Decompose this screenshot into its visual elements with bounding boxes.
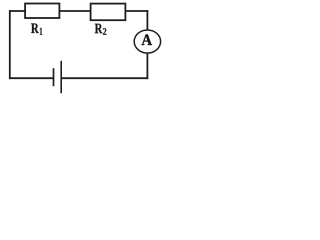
wire: top-left horizontal from left rail to R1	[9, 10, 26, 12]
resistor R2	[91, 4, 126, 21]
ammeter label A	[142, 34, 152, 45]
battery BT1 short plate (negative)	[53, 68, 55, 86]
label R1: subscript 1	[40, 28, 42, 35]
ammeter U1 ellipse	[134, 30, 160, 53]
label R2: subscript 2	[103, 28, 106, 35]
label R1: letter R	[31, 24, 39, 33]
wire: top-right horizontal from R2 to corner	[125, 10, 148, 12]
resistor R1	[25, 4, 59, 19]
wire: bottom-left horizontal from battery short plate to left rail	[9, 77, 54, 79]
wire: right rail vertical from ammeter to bottom corner	[146, 53, 148, 79]
battery BT1 long plate (positive)	[60, 61, 62, 94]
wire: right rail vertical down to ammeter	[146, 10, 148, 30]
wire: left rail vertical	[9, 10, 11, 79]
wire: bottom-right horizontal from corner to battery long plate	[61, 77, 148, 79]
label R2: letter R	[95, 24, 103, 33]
wire: horizontal between R1 and R2	[59, 10, 91, 12]
